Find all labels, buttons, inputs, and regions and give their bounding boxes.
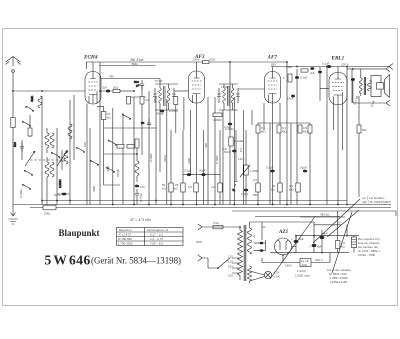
resistor 10k cathode [102, 112, 112, 120]
voltage selector arm [218, 258, 230, 268]
rectifier AZ1 [275, 238, 292, 256]
wire IF1 frame [155, 84, 178, 110]
svg-text:50nF: 50nF [224, 150, 231, 154]
field coil Fe18 box [283, 253, 330, 267]
wire cathode ech4 [97, 106, 104, 108]
node antenna input [12, 90, 14, 92]
top HT bus [271, 66, 389, 68]
wire antenna input [13, 90, 85, 92]
trimmer IF2b [236, 88, 240, 103]
svg-text:5 W 646: 5 W 646 [45, 253, 91, 268]
svg-text:M 180-580: M 180-580 [118, 237, 132, 241]
capacitor 8uF a [291, 236, 304, 243]
svg-text:20μF: 20μF [300, 166, 307, 170]
tube AF7 [265, 72, 281, 104]
switch contact a [26, 106, 34, 111]
coil IF2 primary [223, 84, 226, 110]
speaker [371, 75, 390, 98]
svg-text:10nF: 10nF [287, 97, 294, 101]
selector taps [232, 258, 240, 273]
node k6 [233, 204, 235, 206]
node j13 [326, 66, 328, 68]
svg-text:L 700-2000: L 700-2000 [118, 242, 133, 246]
tube EBL1 [329, 73, 347, 151]
svg-text:0,5μF: 0,5μF [266, 166, 274, 170]
wire bus y216.5 [255, 216, 340, 218]
node k2 [133, 204, 135, 206]
svg-text:0,1MΩ: 0,1MΩ [215, 155, 219, 164]
svg-text:0,5A: 0,5A [213, 221, 219, 225]
svg-text:8μF: 8μF [323, 232, 328, 236]
pointer line a [313, 199, 360, 243]
wire speaker bottom line [353, 102, 386, 104]
switch contact b [22, 121, 31, 126]
svg-text:1MΩ: 1MΩ [187, 157, 191, 164]
wire psu verticals [338, 211, 354, 253]
wire 78V line [101, 79, 160, 85]
node j1 [41, 200, 43, 202]
resistor osc c [135, 139, 139, 148]
svg-text:8μF: 8μF [317, 245, 322, 249]
capacitor 50pF grid [141, 119, 151, 125]
node j10 [229, 61, 231, 63]
svg-text:125: 125 [228, 260, 233, 264]
resistor 2.5k [28, 128, 32, 136]
oscillator box wire [104, 127, 157, 129]
node j9 [196, 204, 198, 206]
resistor 0,2M IF2 [213, 113, 222, 122]
node k9 [337, 204, 339, 206]
svg-text:25kΩ: 25kΩ [163, 154, 167, 162]
node j14 [272, 204, 274, 206]
svg-text:Bereich m: Bereich m [119, 228, 133, 232]
pilot lamp [250, 271, 272, 281]
svg-text:0,1μF: 0,1μF [322, 62, 330, 66]
svg-text:220 V: 220 V [340, 63, 350, 67]
coil osc [135, 148, 139, 182]
wire bus y211 [232, 211, 396, 216]
capacitor 500pF anode [134, 80, 144, 90]
svg-text:4MΩ: 4MΩ [30, 95, 34, 102]
trimmer IF1b [172, 88, 176, 103]
table frequency ranges [117, 228, 184, 246]
node j12 [296, 66, 298, 68]
svg-text:12500 mag: 12500 mag [295, 274, 310, 278]
node j2 [56, 200, 58, 202]
capacitor 0,1uF pot [241, 189, 249, 196]
pointer line c [332, 212, 352, 273]
resistor 1,5k [336, 241, 346, 249]
node j8 [170, 204, 172, 206]
svg-text:100: 100 [83, 142, 87, 147]
node j7 [155, 200, 157, 202]
switch Ta [232, 178, 238, 192]
svg-text:140V: 140V [193, 58, 200, 62]
svg-text:AZ1: AZ1 [278, 229, 289, 235]
core IF1 [164, 86, 166, 106]
wire af7 grid link [238, 88, 265, 90]
resistor 0,1M top b [277, 125, 287, 134]
trimmer IF1a [153, 88, 157, 103]
svg-text:50Ω: 50Ω [113, 86, 119, 90]
svg-text:2MΩ: 2MΩ [44, 212, 51, 216]
svg-text:0,5: 0,5 [253, 178, 257, 182]
svg-text:1,2MΩ: 1,2MΩ [250, 169, 259, 173]
switch contact e [122, 114, 131, 119]
capacitor 0,5uF [266, 166, 275, 173]
capacitor ot [351, 78, 355, 81]
wire HT bus PSU [296, 235, 359, 237]
svg-text:240V: 240V [285, 264, 292, 268]
svg-text:+: + [291, 237, 293, 241]
node EBL1 top [346, 66, 348, 68]
capacitor 0,1uF sg [184, 169, 192, 177]
resistor 0,5M top c [298, 125, 308, 134]
svg-text:K u 14-57: K u 14-57 [119, 233, 132, 237]
wire verticals ECH4 section [74, 62, 134, 205]
wire verticals AF3 section [191, 97, 223, 205]
wire speaker top line [347, 68, 386, 70]
wire -2V line [314, 221, 341, 225]
resistor 0,2M AF3 [169, 97, 178, 114]
svg-text:1nF: 1nF [140, 185, 145, 189]
node j18 [295, 235, 297, 237]
wire af3 grid link [174, 90, 189, 92]
node j6 [136, 153, 138, 155]
resistor antenna series [11, 118, 15, 128]
chassis bus upper [13, 204, 391, 206]
svg-text:2,2 – 6,75: 2,2 – 6,75 [150, 237, 163, 241]
svg-text:13nF: 13nF [238, 157, 245, 161]
chassis bus lower [30, 207, 391, 209]
svg-text:Ta: Ta [232, 188, 235, 192]
svg-text:2MΩ: 2MΩ [286, 65, 293, 69]
svg-text:Blaupunkt: Blaupunkt [59, 228, 100, 238]
coil ot secondary [368, 81, 372, 92]
annotation Fuer in den Geraeten [327, 268, 352, 284]
svg-text:4Mℓ: 4Mℓ [204, 143, 208, 148]
svg-text:85V: 85V [271, 63, 276, 67]
coil IF2 secondary [231, 84, 234, 110]
resistor 0,5M [253, 178, 260, 197]
connector arrow right top [389, 64, 393, 70]
potentiometer 1,2M [240, 165, 259, 177]
capacitor 2uF grid [101, 86, 113, 93]
coil IF1 secondary [167, 84, 170, 110]
resistor ZW [286, 65, 308, 72]
trimmer IF2a [217, 88, 221, 103]
wire heater top to AZ1 [250, 222, 315, 240]
node j5 [133, 90, 135, 92]
resistor 0,1M b [289, 183, 300, 192]
svg-text:2μF: 2μF [310, 71, 315, 75]
core ot [364, 77, 365, 95]
coil L2 [45, 128, 49, 153]
node j20 [321, 252, 323, 254]
capacitor 8uF c [320, 230, 329, 253]
resistor 1M right [283, 74, 292, 82]
pointer line d [270, 217, 315, 280]
svg-text:0,1A: 0,1A [274, 275, 280, 279]
svg-text:4μF ⎤ Nr 15334-15837: 4μF ⎤ Nr 15334-15837 [362, 200, 391, 204]
resistor 50k b [271, 183, 282, 192]
node k10 [41, 90, 43, 92]
wire ebl1 grid link [320, 88, 329, 90]
node k3 [148, 204, 150, 206]
svg-text:0,1MΩ: 0,1MΩ [19, 189, 23, 198]
svg-text:10134 - 7938: 10134 - 7938 [358, 253, 375, 257]
trimmer cap left [59, 150, 65, 170]
svg-text:60W: 60W [196, 240, 202, 244]
fuse 0,5A [213, 221, 240, 229]
coil L3b [50, 162, 54, 177]
label 1,34 ohm [295, 269, 310, 278]
coil L3 [45, 157, 49, 205]
coil ot primary [359, 69, 362, 96]
wire sg bus [183, 174, 220, 176]
svg-text:1,34 Ω: 1,34 Ω [297, 269, 306, 273]
wire speaker bottom drop [352, 80, 354, 104]
svg-text:0,1μF: 0,1μF [300, 76, 308, 80]
svg-text:0,1μF: 0,1μF [241, 192, 249, 196]
mains terminal upper [198, 224, 213, 230]
node j3 [69, 200, 71, 202]
node k8 [286, 204, 288, 206]
node j19 [313, 235, 315, 237]
wire ech4 top link [126, 96, 146, 98]
svg-text:500: 500 [13, 142, 17, 147]
transformer T1 core [244, 225, 246, 281]
svg-text:0,2MΩ: 0,2MΩ [213, 118, 222, 122]
svg-text:50nF: 50nF [54, 193, 61, 197]
resistor 0,2M top [140, 97, 149, 105]
capacitor padder [135, 189, 139, 205]
pointer line b [327, 210, 359, 237]
resistor 0,1M a [229, 137, 244, 146]
svg-text:0,77μF: 0,77μF [139, 193, 143, 202]
svg-text:0,2MΩ: 0,2MΩ [169, 109, 178, 113]
svg-text:340 V: 340 V [315, 258, 323, 262]
tube ECH4 [85, 72, 101, 105]
svg-text:EBL1: EBL1 [331, 55, 345, 61]
svg-text:3,8MΩ: 3,8MΩ [58, 179, 62, 188]
svg-text:0,1μF: 0,1μF [184, 169, 192, 173]
tuning gang dashed link [30, 159, 62, 161]
coil L1 [30, 95, 42, 108]
svg-text:12059-12159: 12059-12159 [330, 280, 347, 284]
node k7 [257, 204, 259, 206]
capacitor 0,1uF r [295, 76, 308, 80]
wire PSU lower bus [270, 252, 349, 254]
resistor 3M top d [308, 125, 312, 133]
node k4 [182, 204, 184, 206]
wire verticals EBL1 section [291, 67, 359, 205]
svg-text:78V: 78V [109, 75, 114, 79]
node k1 [112, 204, 114, 206]
svg-text:7,05 – 8,3: 7,05 – 8,3 [150, 242, 163, 246]
svg-text:20μF: 20μF [199, 169, 206, 173]
node j15 [309, 204, 311, 206]
wire resistor top row link [258, 122, 310, 124]
resistor 50k [162, 183, 173, 192]
trimmer arrow [57, 151, 67, 166]
svg-text:0,1MΩ: 0,1MΩ [149, 153, 153, 162]
resistor quarter M [211, 183, 222, 192]
capacitor 50nF [54, 193, 70, 197]
capacitor 0,1uF EBL1 grid [322, 62, 331, 69]
transformer T1 heater winding [248, 266, 252, 283]
wire grid stubs tubes [86, 62, 338, 73]
svg-text:43/13Ω: 43/13Ω [320, 213, 330, 217]
label 43 13 ohm [300, 213, 345, 218]
wire osc box left [104, 107, 120, 186]
resistor osc b [127, 145, 134, 149]
wire osc link [104, 153, 137, 155]
svg-text:200pF: 200pF [156, 112, 164, 116]
svg-text:pF: pF [136, 84, 140, 88]
node ot top [352, 68, 354, 70]
svg-text:Schwingkreis mℓ: Schwingkreis mℓ [147, 228, 168, 232]
transformer T1 secondary HT [248, 226, 252, 255]
core IF2 [228, 86, 230, 106]
capacitor CT a [254, 240, 266, 251]
resistor 2M ohm on bus [43, 205, 56, 210]
svg-text:50Ω: 50Ω [210, 58, 216, 62]
capacitor 200pF [156, 110, 164, 116]
svg-text:0,2: 0,2 [145, 98, 149, 102]
resistor 50 ohm [113, 86, 134, 93]
label 6,3V 0,3A [274, 271, 280, 279]
wire IF2 frame [219, 84, 238, 110]
node k5 [214, 204, 216, 206]
switch contact h [76, 147, 85, 152]
svg-text:(Gerät Nr. 5834—13198): (Gerät Nr. 5834—13198) [91, 256, 181, 266]
transformer T1 primary [238, 227, 243, 280]
switch contact d [24, 170, 33, 175]
svg-text:3MΩ: 3MΩ [92, 185, 96, 192]
svg-text:4V: 4V [252, 234, 256, 238]
coil L2b [50, 133, 54, 148]
node j11 [286, 61, 288, 63]
svg-text:110: 110 [228, 255, 233, 259]
hum coil [352, 237, 357, 248]
connector arrow speaker bottom [386, 100, 390, 106]
node j17 [239, 226, 241, 228]
svg-text:ECH4: ECH4 [83, 55, 98, 61]
svg-text:57 Mℓ: 57 Mℓ [155, 79, 163, 83]
resistor 1M [188, 183, 198, 192]
node j4 [99, 90, 101, 92]
resistor 25k [174, 183, 185, 192]
coil IF1 primary [159, 84, 162, 110]
capacitor 500pF [13, 142, 24, 152]
resistor 50 ohm AF3 anode [193, 58, 216, 64]
top AVC bus [86, 61, 287, 63]
wire antenna down-lead [12, 72, 14, 204]
switch contact j [90, 160, 99, 165]
svg-text:50: 50 [141, 121, 145, 125]
switch contact f [108, 140, 117, 145]
wire verticals left section [22, 96, 70, 205]
capacitor 50nF a [224, 150, 237, 154]
switch contact c [51, 152, 60, 157]
capacitor 8uF b [309, 236, 322, 253]
svg-text:500pF: 500pF [116, 169, 120, 177]
svg-text:+: + [309, 245, 311, 249]
tube AF3 [189, 71, 205, 103]
antenna [6, 57, 21, 73]
capacitor top EBL1 [318, 71, 322, 74]
annotation Der negative Pol [358, 237, 381, 257]
coil L5 [68, 124, 72, 139]
mains terminal lower [198, 255, 218, 268]
trimmer arrow b [25, 151, 35, 166]
svg-text:AF7: AF7 [267, 55, 278, 61]
resistor osc a [117, 145, 124, 149]
svg-text:4V: 4V [262, 225, 266, 229]
capacitor 2uF r [310, 67, 315, 75]
svg-text:43Ω: 43Ω [302, 263, 308, 267]
switch contact i [22, 184, 31, 189]
svg-text:8,2: 8,2 [239, 148, 243, 152]
capacitor 20uF cath [199, 169, 206, 177]
node j16 [346, 204, 348, 206]
switch contact g [106, 167, 115, 172]
connector arrow speaker top [386, 66, 390, 72]
svg-text:0,1μF: 0,1μF [224, 125, 232, 129]
resistor 250 [127, 97, 131, 105]
svg-text:0,1MΩ: 0,1MΩ [235, 139, 244, 143]
capacitor CT b [254, 249, 266, 252]
coil L4 [58, 150, 68, 188]
annotation nur bei Geraeten [362, 196, 391, 204]
capacitor 20uF b [300, 166, 307, 173]
resistor 0,1M top a [256, 125, 266, 134]
svg-text:220: 220 [228, 274, 233, 278]
svg-text:0,17 – 2,2: 0,17 – 2,2 [150, 233, 163, 237]
wire verticals IF1 section [142, 85, 184, 205]
wire mid bus y200 [42, 200, 347, 202]
wire verticals AF7 section [230, 62, 287, 205]
ground [9, 205, 18, 225]
resistor M EBL1 [357, 125, 367, 133]
capacitor 10nF [287, 95, 295, 101]
svg-text:2μF: 2μF [102, 86, 107, 90]
svg-text:150: 150 [228, 265, 233, 269]
wire AZ1 output [262, 236, 296, 263]
capacitor 0,1uF IF2 [224, 123, 232, 129]
capacitor 1nF osc [135, 185, 145, 189]
svg-text:ZF = 473 kHz: ZF = 473 kHz [129, 218, 151, 222]
